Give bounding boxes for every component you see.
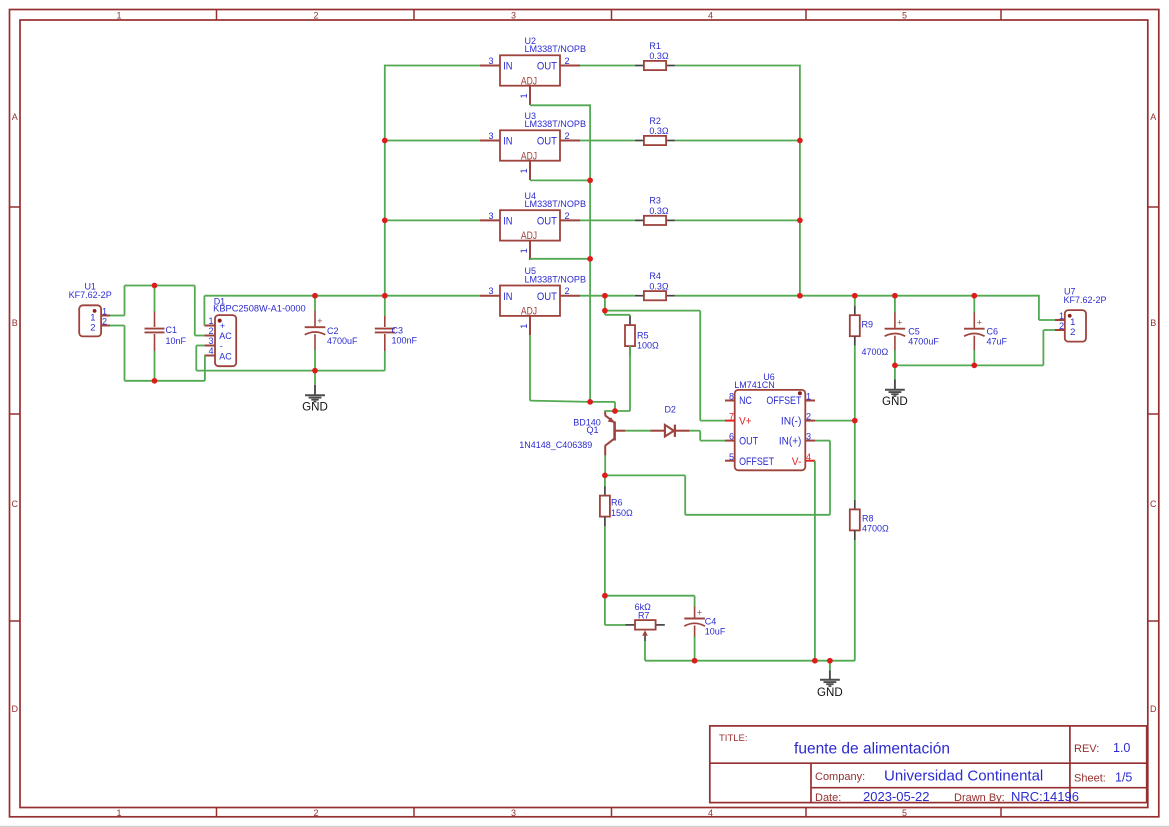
- svg-text:2: 2: [1059, 321, 1064, 331]
- svg-text:R9: R9: [862, 320, 874, 330]
- svg-text:V-: V-: [792, 456, 802, 468]
- svg-text:Q1: Q1: [586, 425, 598, 435]
- wire: [799, 66, 801, 296]
- svg-text:IN: IN: [503, 216, 512, 228]
- svg-text:3: 3: [488, 211, 493, 221]
- svg-text:4700uF: 4700uF: [908, 336, 939, 346]
- wire: [605, 595, 695, 597]
- svg-text:IN: IN: [503, 61, 512, 73]
- svg-text:0.3Ω: 0.3Ω: [649, 126, 669, 136]
- junction: [587, 178, 593, 184]
- junction: [852, 293, 858, 299]
- svg-text:ADJ: ADJ: [521, 230, 537, 242]
- wire: [629, 346, 631, 411]
- wire: [700, 440, 725, 442]
- svg-text:3: 3: [488, 286, 493, 296]
- svg-text:Universidad Continental: Universidad Continental: [884, 768, 1043, 785]
- wire: [110, 315, 125, 317]
- junction: [892, 293, 898, 299]
- U7 pin-1 marker dot: [1068, 314, 1072, 318]
- svg-text:GND: GND: [302, 402, 328, 414]
- svg-text:2: 2: [209, 326, 214, 336]
- junction: [602, 293, 608, 299]
- wire: [580, 140, 635, 142]
- svg-text:3: 3: [806, 432, 811, 442]
- svg-text:2: 2: [313, 808, 318, 818]
- svg-text:+: +: [317, 316, 322, 326]
- wire: [314, 350, 316, 371]
- junction: [612, 408, 618, 414]
- resistor R1: [635, 61, 675, 70]
- wire: [814, 461, 816, 661]
- svg-text:1/5: 1/5: [1115, 771, 1132, 785]
- frame column ticks bottom: [217, 808, 1002, 818]
- junction: [971, 363, 977, 369]
- U6 pin-1 orientation dot: [798, 391, 802, 395]
- junction: [827, 658, 833, 664]
- resistor R5: [625, 316, 635, 356]
- junction: [152, 283, 158, 289]
- junction: [312, 293, 318, 299]
- svg-text:LM338T/NOPB: LM338T/NOPB: [525, 274, 587, 284]
- svg-text:Date:: Date:: [815, 792, 841, 804]
- D1 pin-1 marker dot: [218, 319, 222, 323]
- svg-text:TITLE:: TITLE:: [719, 733, 748, 744]
- junction: [382, 293, 388, 299]
- C5 top lead: [894, 312, 896, 328]
- wire: [614, 402, 616, 411]
- svg-text:R4: R4: [649, 271, 661, 281]
- wire: [895, 364, 1044, 366]
- resistor R8: [850, 500, 860, 540]
- svg-text:R8: R8: [862, 513, 874, 523]
- svg-text:OFFSET: OFFSET: [766, 395, 801, 407]
- C6 bottom lead: [973, 336, 975, 351]
- wire: [604, 455, 606, 475]
- svg-text:47uF: 47uF: [987, 336, 1008, 346]
- wire: [625, 430, 650, 432]
- page bottom edge line: [0, 825, 1169, 827]
- svg-text:3: 3: [488, 56, 493, 66]
- svg-text:5: 5: [729, 452, 734, 462]
- svg-text:2: 2: [102, 317, 107, 327]
- capacitor C1: [145, 311, 165, 351]
- svg-text:2: 2: [565, 56, 570, 66]
- wire: [973, 350, 975, 365]
- svg-text:1: 1: [519, 93, 529, 98]
- wire: [1043, 329, 1055, 331]
- svg-text:Drawn By:: Drawn By:: [954, 792, 1005, 804]
- connector U7 KF7.62-2P: [1055, 310, 1086, 342]
- frame row letters right: [1150, 112, 1157, 714]
- svg-text:0.3Ω: 0.3Ω: [649, 206, 669, 216]
- svg-text:1: 1: [519, 324, 529, 329]
- ground symbol GND: [820, 661, 840, 686]
- svg-text:B: B: [1150, 318, 1156, 328]
- transistor Q1 BD140 PNP: [605, 411, 625, 456]
- wire: [605, 474, 685, 476]
- junction: [587, 399, 593, 405]
- wire: [204, 356, 206, 381]
- svg-text:REV:: REV:: [1074, 743, 1099, 755]
- svg-text:1: 1: [519, 168, 529, 173]
- wire: [700, 420, 725, 422]
- svg-text:0.3Ω: 0.3Ω: [649, 281, 669, 291]
- svg-text:LM338T/NOPB: LM338T/NOPB: [525, 199, 587, 209]
- frame column ticks top: [217, 10, 1002, 21]
- wire: [629, 315, 631, 316]
- svg-text:1: 1: [116, 808, 121, 818]
- wire: [385, 219, 480, 221]
- junction: [797, 138, 803, 144]
- svg-text:LM338T/NOPB: LM338T/NOPB: [525, 44, 587, 54]
- wire: [604, 296, 606, 311]
- regulator U4 LM338T/NOPB: [480, 210, 580, 260]
- svg-text:D2: D2: [664, 405, 676, 415]
- polarized capacitor C6: [964, 329, 985, 337]
- wire: [1039, 319, 1055, 321]
- ground symbol GND: [305, 371, 325, 402]
- wire: [605, 314, 630, 316]
- polarized capacitor C4: [684, 619, 705, 627]
- wire: [195, 346, 197, 371]
- svg-text:100nF: 100nF: [392, 336, 418, 346]
- wire: [675, 295, 1039, 297]
- svg-text:V+: V+: [739, 415, 751, 427]
- svg-text:C6: C6: [987, 326, 999, 336]
- wire: [604, 526, 606, 596]
- svg-text:OUT: OUT: [537, 291, 557, 303]
- svg-text:OUT: OUT: [537, 136, 557, 148]
- svg-text:D: D: [11, 704, 18, 714]
- resistor R2: [635, 136, 675, 145]
- wire: [685, 514, 830, 516]
- svg-text:150Ω: 150Ω: [611, 508, 633, 518]
- svg-text:1: 1: [209, 316, 214, 326]
- wire: [604, 475, 606, 486]
- svg-text:IN(-): IN(-): [781, 415, 802, 427]
- regulator U5 LM338T/NOPB: [480, 286, 580, 336]
- svg-text:R6: R6: [611, 498, 623, 508]
- svg-text:4700Ω: 4700Ω: [862, 347, 889, 357]
- svg-text:-: -: [220, 341, 223, 351]
- wire: [384, 296, 386, 316]
- svg-text:10uF: 10uF: [705, 627, 726, 637]
- svg-text:4: 4: [209, 346, 214, 356]
- wire: [589, 104, 591, 402]
- svg-text:D: D: [1150, 704, 1157, 714]
- svg-text:4700uF: 4700uF: [327, 336, 358, 346]
- svg-text:3: 3: [209, 336, 214, 346]
- svg-text:5: 5: [902, 10, 907, 20]
- svg-text:4: 4: [806, 452, 811, 462]
- svg-text:KF7.62-2P: KF7.62-2P: [1064, 295, 1107, 305]
- connector U1 KF7.62-2P: [79, 305, 110, 336]
- wire: [530, 401, 590, 402]
- wire: [815, 420, 855, 422]
- diode D2 1N4148: [650, 425, 690, 437]
- svg-text:4700Ω: 4700Ω: [862, 523, 889, 533]
- resistor R6: [600, 486, 610, 526]
- svg-text:NC: NC: [739, 395, 752, 407]
- svg-text:C5: C5: [908, 326, 920, 336]
- svg-text:R1: R1: [649, 41, 661, 51]
- frame row ticks left: [10, 207, 21, 621]
- svg-text:IN(+): IN(+): [779, 436, 802, 448]
- polarized capacitor C2: [305, 327, 326, 335]
- svg-text:ADJ: ADJ: [521, 306, 537, 318]
- junction: [812, 658, 818, 664]
- svg-text:C4: C4: [705, 616, 717, 626]
- wire: [530, 258, 590, 260]
- svg-text:1N4148_C406389: 1N4148_C406389: [519, 440, 592, 450]
- wire: [815, 440, 830, 442]
- C5 bottom lead: [894, 336, 896, 351]
- wire: [894, 296, 896, 313]
- svg-text:ADJ: ADJ: [521, 75, 537, 87]
- C6 top lead: [973, 312, 975, 328]
- resistor R9: [850, 306, 860, 346]
- wire: [973, 296, 975, 313]
- svg-text:4: 4: [708, 10, 713, 20]
- polarized capacitor C5: [885, 329, 906, 337]
- wire: [854, 346, 856, 421]
- wire: [604, 311, 606, 315]
- junction: [797, 218, 803, 224]
- junction: [602, 593, 608, 599]
- svg-text:2: 2: [806, 412, 811, 422]
- svg-text:fuente de alimentación: fuente de alimentación: [794, 741, 950, 758]
- svg-text:1: 1: [806, 392, 811, 402]
- bridge rectifier D1 KBPC2508W-A1-0000: [204, 315, 236, 366]
- svg-text:+: +: [897, 318, 902, 328]
- wire: [605, 624, 626, 626]
- resistor R3: [635, 216, 675, 225]
- svg-text:2: 2: [565, 286, 570, 296]
- svg-text:+: +: [977, 318, 982, 328]
- svg-text:C3: C3: [392, 326, 404, 336]
- svg-text:1: 1: [102, 306, 107, 316]
- wire: [854, 421, 856, 501]
- wire: [124, 326, 126, 381]
- wire: [854, 296, 856, 307]
- svg-text:NRC:14196: NRC:14196: [1011, 789, 1079, 804]
- svg-text:3: 3: [488, 131, 493, 141]
- junction: [312, 368, 318, 374]
- junction: [602, 473, 608, 479]
- svg-text:KF7.62-2P: KF7.62-2P: [69, 290, 112, 300]
- capacitor C3: [375, 316, 395, 352]
- wire: [196, 345, 204, 347]
- frame row ticks right: [1148, 207, 1159, 621]
- svg-text:1: 1: [519, 248, 529, 253]
- svg-text:AC: AC: [219, 331, 232, 341]
- junction: [587, 256, 593, 262]
- svg-text:LM741CN: LM741CN: [734, 380, 775, 390]
- svg-text:LM338T/NOPB: LM338T/NOPB: [525, 119, 587, 129]
- svg-text:A: A: [12, 112, 18, 122]
- svg-text:C2: C2: [327, 326, 339, 336]
- wire: [604, 596, 606, 625]
- wire: [154, 351, 156, 382]
- C2 bottom lead: [314, 334, 316, 350]
- title block: [710, 726, 1147, 803]
- junction: [852, 418, 858, 424]
- wire: [110, 325, 125, 327]
- wire: [590, 401, 615, 403]
- svg-text:1: 1: [1059, 311, 1064, 321]
- svg-text:1: 1: [116, 10, 121, 20]
- frame row letters left: [11, 112, 18, 714]
- svg-text:AC: AC: [219, 352, 232, 362]
- wire: [699, 311, 701, 421]
- svg-text:R3: R3: [649, 196, 661, 206]
- wire: [154, 285, 156, 312]
- svg-text:C: C: [11, 499, 18, 509]
- svg-text:2: 2: [313, 10, 318, 20]
- potentiometer R7 6kΩ: [625, 620, 665, 641]
- svg-text:C: C: [1150, 499, 1157, 509]
- svg-text:2: 2: [565, 131, 570, 141]
- wire: [689, 430, 700, 432]
- wire: [124, 286, 126, 316]
- wire: [204, 295, 480, 297]
- svg-text:OUT: OUT: [537, 61, 557, 73]
- C4 bottom lead: [694, 626, 696, 638]
- svg-text:C1: C1: [166, 325, 178, 335]
- junction: [971, 293, 977, 299]
- wire: [530, 104, 590, 106]
- wire: [194, 286, 196, 336]
- wire: [1042, 330, 1044, 365]
- wire: [675, 65, 801, 67]
- junction: [152, 378, 158, 384]
- junction: [382, 218, 388, 224]
- op-amp U6 LM741CN: [725, 390, 815, 470]
- svg-text:6: 6: [729, 432, 734, 442]
- wire: [1038, 295, 1040, 320]
- svg-text:ADJ: ADJ: [521, 150, 537, 162]
- wire: [604, 410, 630, 412]
- svg-text:7: 7: [729, 412, 734, 422]
- svg-text:2: 2: [565, 211, 570, 221]
- svg-text:IN: IN: [503, 136, 512, 148]
- svg-text:OUT: OUT: [739, 436, 758, 448]
- svg-text:3: 3: [511, 10, 516, 20]
- junction: [797, 293, 803, 299]
- svg-text:0.3Ω: 0.3Ω: [649, 51, 669, 61]
- svg-text:A: A: [1150, 112, 1156, 122]
- svg-text:R2: R2: [649, 116, 661, 126]
- svg-text:2: 2: [90, 323, 95, 334]
- svg-text:2023-05-22: 2023-05-22: [863, 789, 930, 804]
- svg-text:+: +: [697, 608, 702, 618]
- svg-text:Company:: Company:: [815, 771, 865, 783]
- svg-text:3: 3: [511, 808, 516, 818]
- svg-text:+: +: [220, 321, 225, 331]
- frame column numbers bottom: [116, 808, 907, 818]
- wire: [530, 179, 590, 181]
- junction: [692, 658, 698, 664]
- svg-text:GND: GND: [817, 687, 843, 699]
- wire: [675, 140, 800, 142]
- wire: [605, 310, 700, 312]
- wire: [699, 431, 701, 441]
- wire: [125, 380, 205, 382]
- svg-text:4: 4: [708, 808, 713, 818]
- svg-text:R5: R5: [637, 330, 649, 340]
- wire: [644, 641, 646, 661]
- wire: [385, 140, 480, 142]
- resistor R4: [635, 291, 675, 300]
- wire: [854, 540, 856, 661]
- wire: [894, 350, 896, 365]
- regulator U2 LM338T/NOPB: [480, 55, 580, 105]
- wire: [195, 335, 205, 337]
- wire: [384, 65, 386, 296]
- svg-text:10nF: 10nF: [166, 336, 187, 346]
- svg-text:R7: R7: [638, 610, 650, 620]
- svg-text:8: 8: [729, 392, 734, 402]
- C4 top lead: [694, 606, 696, 618]
- U1 pin-1 marker dot: [93, 309, 97, 313]
- wire: [385, 65, 480, 67]
- C2 top lead: [314, 311, 316, 327]
- wire: [314, 296, 316, 311]
- wire: [684, 475, 686, 514]
- wire: [580, 65, 635, 67]
- wire: [829, 441, 831, 515]
- wire: [203, 296, 205, 326]
- svg-text:2: 2: [1070, 327, 1075, 338]
- wire: [529, 335, 531, 400]
- junction: [602, 308, 608, 314]
- svg-text:IN: IN: [503, 291, 512, 303]
- svg-text:OFFSET: OFFSET: [739, 456, 774, 468]
- wire: [125, 285, 195, 287]
- svg-text:100Ω: 100Ω: [637, 340, 659, 350]
- svg-text:KBPC2508W-A1-0000: KBPC2508W-A1-0000: [213, 304, 306, 314]
- frame column numbers top: [116, 10, 907, 20]
- svg-text:5: 5: [902, 808, 907, 818]
- wire: [645, 660, 855, 662]
- wire: [694, 637, 696, 661]
- svg-text:1.0: 1.0: [1113, 741, 1130, 755]
- regulator U3 LM338T/NOPB: [480, 130, 580, 180]
- wire: [580, 295, 635, 297]
- svg-text:Sheet:: Sheet:: [1074, 773, 1106, 785]
- wire: [196, 370, 384, 372]
- junction: [892, 363, 898, 369]
- svg-text:GND: GND: [882, 396, 908, 408]
- svg-text:OUT: OUT: [537, 216, 557, 228]
- svg-text:B: B: [12, 318, 18, 328]
- wire: [384, 351, 386, 371]
- wire: [580, 219, 635, 221]
- ground symbol GND: [885, 365, 905, 396]
- wire: [675, 219, 800, 221]
- junction: [382, 138, 388, 144]
- wire: [694, 596, 696, 607]
